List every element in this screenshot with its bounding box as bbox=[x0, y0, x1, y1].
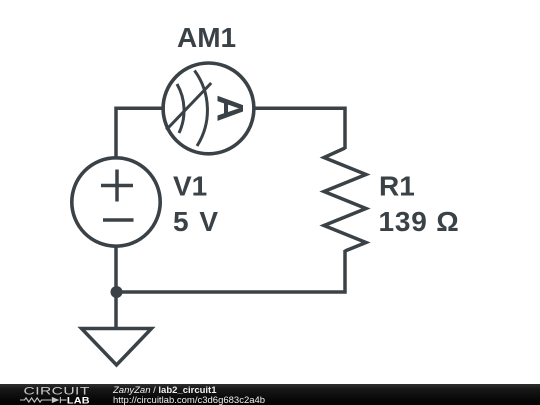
svg-text:V1: V1 bbox=[173, 170, 207, 201]
footer bar bbox=[0, 384, 540, 405]
CircuitLab logo: LAB text bbox=[67, 396, 90, 405]
ground bbox=[82, 329, 152, 366]
svg-text:http://circuitlab.com/c3d6g683: http://circuitlab.com/c3d6g683c2a4b bbox=[113, 395, 265, 405]
node junction dot bbox=[111, 286, 123, 298]
resistor R1 bbox=[324, 148, 366, 251]
CircuitLab logo: diode bbox=[52, 397, 60, 403]
wire top-left: ammeter to V1 top bbox=[116, 108, 162, 158]
svg-text:LAB: LAB bbox=[67, 396, 90, 405]
svg-text:R1: R1 bbox=[379, 171, 415, 202]
svg-text:139 Ω: 139 Ω bbox=[379, 206, 460, 237]
ammeter AM1 bbox=[163, 63, 254, 154]
wire V1 bottom to node bbox=[114, 247, 118, 329]
CircuitLab logo: CIRCUIT text bbox=[24, 385, 90, 397]
ammeter A letter bbox=[210, 95, 252, 122]
svg-text:A: A bbox=[210, 95, 252, 122]
voltage source V1 bbox=[72, 158, 160, 246]
wire bottom: resistor to node bbox=[116, 250, 345, 292]
svg-text:AM1: AM1 bbox=[177, 22, 236, 53]
svg-text:5 V: 5 V bbox=[173, 206, 220, 237]
wire top-right: ammeter to resistor bbox=[255, 108, 345, 149]
CircuitLab logo: resistor squiggle bbox=[20, 397, 67, 403]
